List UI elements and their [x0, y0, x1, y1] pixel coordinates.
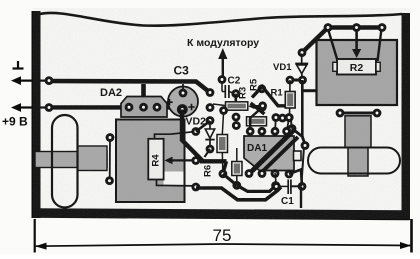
arrow R2 wiper [355, 30, 358, 50]
wire VD1 node down [301, 80, 304, 137]
resistor R6 [236, 148, 238, 162]
board right border [402, 13, 411, 220]
capacitor C2 [218, 75, 227, 84]
resistor R7 [222, 112, 223, 135]
wire C3 bottom to lower node [182, 110, 227, 162]
wire bottom zigzag inner [237, 185, 276, 191]
ground arrow out [11, 76, 21, 85]
wire R6 pad to inner zigzag [223, 174, 237, 186]
wire bottom zigzag outer [196, 187, 281, 200]
wire top right to VD1 [302, 28, 328, 53]
dimension extension line left [34, 219, 36, 253]
pad left +9V [45, 103, 54, 112]
wire right column [301, 147, 304, 187]
dimension extension line right [410, 219, 413, 253]
wire knot to R1 [252, 87, 286, 106]
arrow at R3 [253, 105, 260, 107]
wire knot to R5 [251, 103, 265, 114]
white notch in block [164, 172, 184, 187]
arrow to R4 wiper [170, 159, 192, 161]
wire C1 right to ground [300, 186, 302, 208]
wire: +9V trace to DA2 and C3 [49, 105, 182, 109]
DA1 pads top row [246, 127, 255, 136]
resistor R5 [232, 113, 241, 122]
wire VD2 pad stub [205, 149, 211, 157]
pads VD1/R1 top [290, 79, 303, 82]
resistor R1 [289, 80, 292, 118]
svg-text:+9 В: +9 В [2, 115, 28, 129]
+9V arrow out [11, 103, 21, 112]
pads mid cluster [258, 101, 267, 110]
wire DA2 middle pin up [141, 84, 146, 107]
pad left ground [45, 76, 54, 85]
wire into DA1 pin1 [250, 107, 262, 131]
block (shield) with R4 [116, 120, 185, 203]
inductor/coil capsule left [35, 152, 107, 168]
resistor R4 leads [155, 132, 196, 139]
arrow to modulator [218, 48, 227, 59]
capacitor C1 [275, 173, 276, 187]
plus marks C3 [166, 99, 172, 105]
top right trace with pads [328, 25, 382, 29]
board bottom border [32, 208, 410, 220]
wire: ground trace from pad to node [49, 81, 210, 93]
resistor R4 [148, 139, 163, 180]
node column pads (ground net) [206, 88, 215, 97]
resistor R3 [213, 104, 225, 106]
board left border [32, 11, 41, 218]
IC DA1 [244, 136, 294, 171]
DA1 diagonal traces [252, 129, 295, 171]
wire R2 right to pad [378, 29, 382, 61]
pad R1 lower node [288, 124, 297, 133]
diode VD1 [301, 54, 303, 64]
ground symbol [13, 67, 24, 69]
wire DA1 pin to C1 node [289, 170, 302, 187]
resistor R2 [337, 59, 376, 75]
dimension line 75 [36, 244, 412, 246]
capacitor C3 (electrolytic, top view) [168, 87, 198, 117]
wire from node to DA1 area [196, 121, 210, 132]
capsule right [308, 148, 400, 174]
board top edge (wavy cut) [40, 13, 402, 26]
tab on DA1 right edge [294, 151, 302, 161]
transistor tab vertical gray [345, 116, 371, 148]
pad node C2/R3 [231, 89, 240, 98]
DA1 pads bottom row [245, 169, 254, 178]
diode VD2 [209, 121, 211, 129]
pad knot apex [257, 84, 266, 93]
wire pad to R2 left [328, 29, 338, 61]
pads right of R4 block [191, 127, 200, 136]
svg-text:75: 75 [213, 226, 232, 245]
pads under block [340, 112, 377, 115]
trimmer block (R2 unit) [317, 40, 398, 105]
IC DA2 [121, 97, 167, 118]
pads beside coil [109, 138, 111, 181]
